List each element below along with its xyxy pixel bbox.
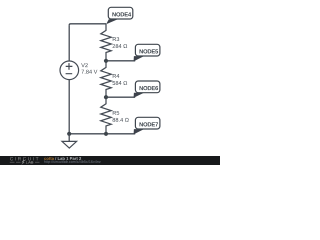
wire: NODE5 stub bbox=[106, 60, 135, 62]
value 584 ohm bbox=[113, 81, 128, 85]
wire: top horizontal from corner to R3 top bbox=[69, 24, 106, 25]
label R5 bbox=[113, 111, 119, 115]
wire: left vertical from V2 bottom to bottom wire bbox=[68, 79, 70, 133]
footer bar bbox=[0, 156, 220, 165]
wire: bottom horizontal from ground junction to NODE7 anchor bbox=[69, 133, 135, 135]
footer title text bbox=[44, 157, 81, 160]
node name NODE6 bbox=[139, 86, 158, 90]
canvas background bbox=[0, 0, 220, 165]
node name NODE7 bbox=[139, 122, 158, 126]
value 88.4 ohm bbox=[113, 118, 129, 122]
junction: ground node bbox=[67, 132, 71, 136]
CircuitLab logo bbox=[10, 157, 40, 165]
junction: R5 bottom node bbox=[104, 132, 108, 136]
voltage source V2 symbol bbox=[60, 61, 79, 80]
junction: R4/R5 node bbox=[104, 95, 108, 99]
ground bbox=[62, 134, 77, 148]
value 7.84 V bbox=[81, 70, 97, 74]
node NODE4 flag shape bbox=[106, 7, 133, 24]
junction: R3/R4 node bbox=[104, 59, 108, 63]
footer url text bbox=[44, 160, 100, 163]
wire: NODE6 stub bbox=[106, 96, 135, 98]
node NODE7 flag shape bbox=[134, 117, 160, 134]
label V2 bbox=[81, 63, 88, 67]
node NODE5 flag shape bbox=[134, 44, 160, 61]
resistor R4 bbox=[101, 61, 111, 97]
label R4 bbox=[113, 74, 120, 78]
node name NODE4 bbox=[112, 12, 131, 16]
resistor R5 bbox=[101, 97, 111, 134]
label R3 bbox=[113, 37, 119, 41]
node name NODE5 bbox=[139, 49, 158, 53]
value 284 ohm bbox=[113, 44, 128, 48]
resistor R3 bbox=[101, 24, 111, 61]
wire: left vertical from top corner down to V2 top bbox=[68, 25, 70, 61]
node NODE6 flag shape bbox=[134, 81, 160, 98]
